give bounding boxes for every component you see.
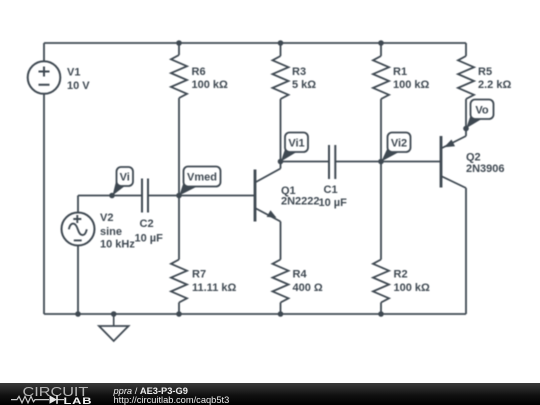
svg-text:R6: R6 xyxy=(192,66,206,78)
svg-text:sine: sine xyxy=(100,226,122,238)
svg-text:C2: C2 xyxy=(140,218,154,230)
svg-text:11.11 kΩ: 11.11 kΩ xyxy=(192,282,236,294)
svg-text:R7: R7 xyxy=(192,269,206,281)
svg-text:2N2222: 2N2222 xyxy=(281,196,320,208)
svg-text:5 kΩ: 5 kΩ xyxy=(292,79,316,91)
svg-text:100 kΩ: 100 kΩ xyxy=(394,282,431,294)
svg-text:400 Ω: 400 Ω xyxy=(293,282,323,294)
svg-text:Vi2: Vi2 xyxy=(391,138,407,150)
svg-text:Vo: Vo xyxy=(475,105,489,117)
svg-text:C1: C1 xyxy=(324,184,338,196)
svg-text:100 kΩ: 100 kΩ xyxy=(192,79,229,91)
svg-text:R3: R3 xyxy=(292,66,306,78)
svg-text:Vi: Vi xyxy=(120,172,130,184)
svg-text:http://circuitlab.com/caqb5t3: http://circuitlab.com/caqb5t3 xyxy=(114,395,230,405)
svg-text:R4: R4 xyxy=(293,269,308,281)
svg-text:2N3906: 2N3906 xyxy=(466,163,505,175)
svg-text:10 V: 10 V xyxy=(67,80,90,92)
svg-text:10 µF: 10 µF xyxy=(319,197,348,209)
svg-text:R5: R5 xyxy=(478,66,492,78)
svg-text:Vmed: Vmed xyxy=(187,172,217,184)
svg-text:Q2: Q2 xyxy=(466,152,481,164)
svg-text:V2: V2 xyxy=(100,212,113,224)
svg-text:100 kΩ: 100 kΩ xyxy=(393,79,430,91)
svg-text:10 kHz: 10 kHz xyxy=(100,239,135,251)
svg-text:Vi1: Vi1 xyxy=(288,138,304,150)
svg-text:R2: R2 xyxy=(394,269,408,281)
svg-text:V1: V1 xyxy=(67,67,80,79)
svg-text:2.2 kΩ: 2.2 kΩ xyxy=(478,79,511,91)
svg-text:LAB: LAB xyxy=(64,397,93,405)
svg-text:10 µF: 10 µF xyxy=(135,233,164,245)
svg-text:R1: R1 xyxy=(393,66,407,78)
